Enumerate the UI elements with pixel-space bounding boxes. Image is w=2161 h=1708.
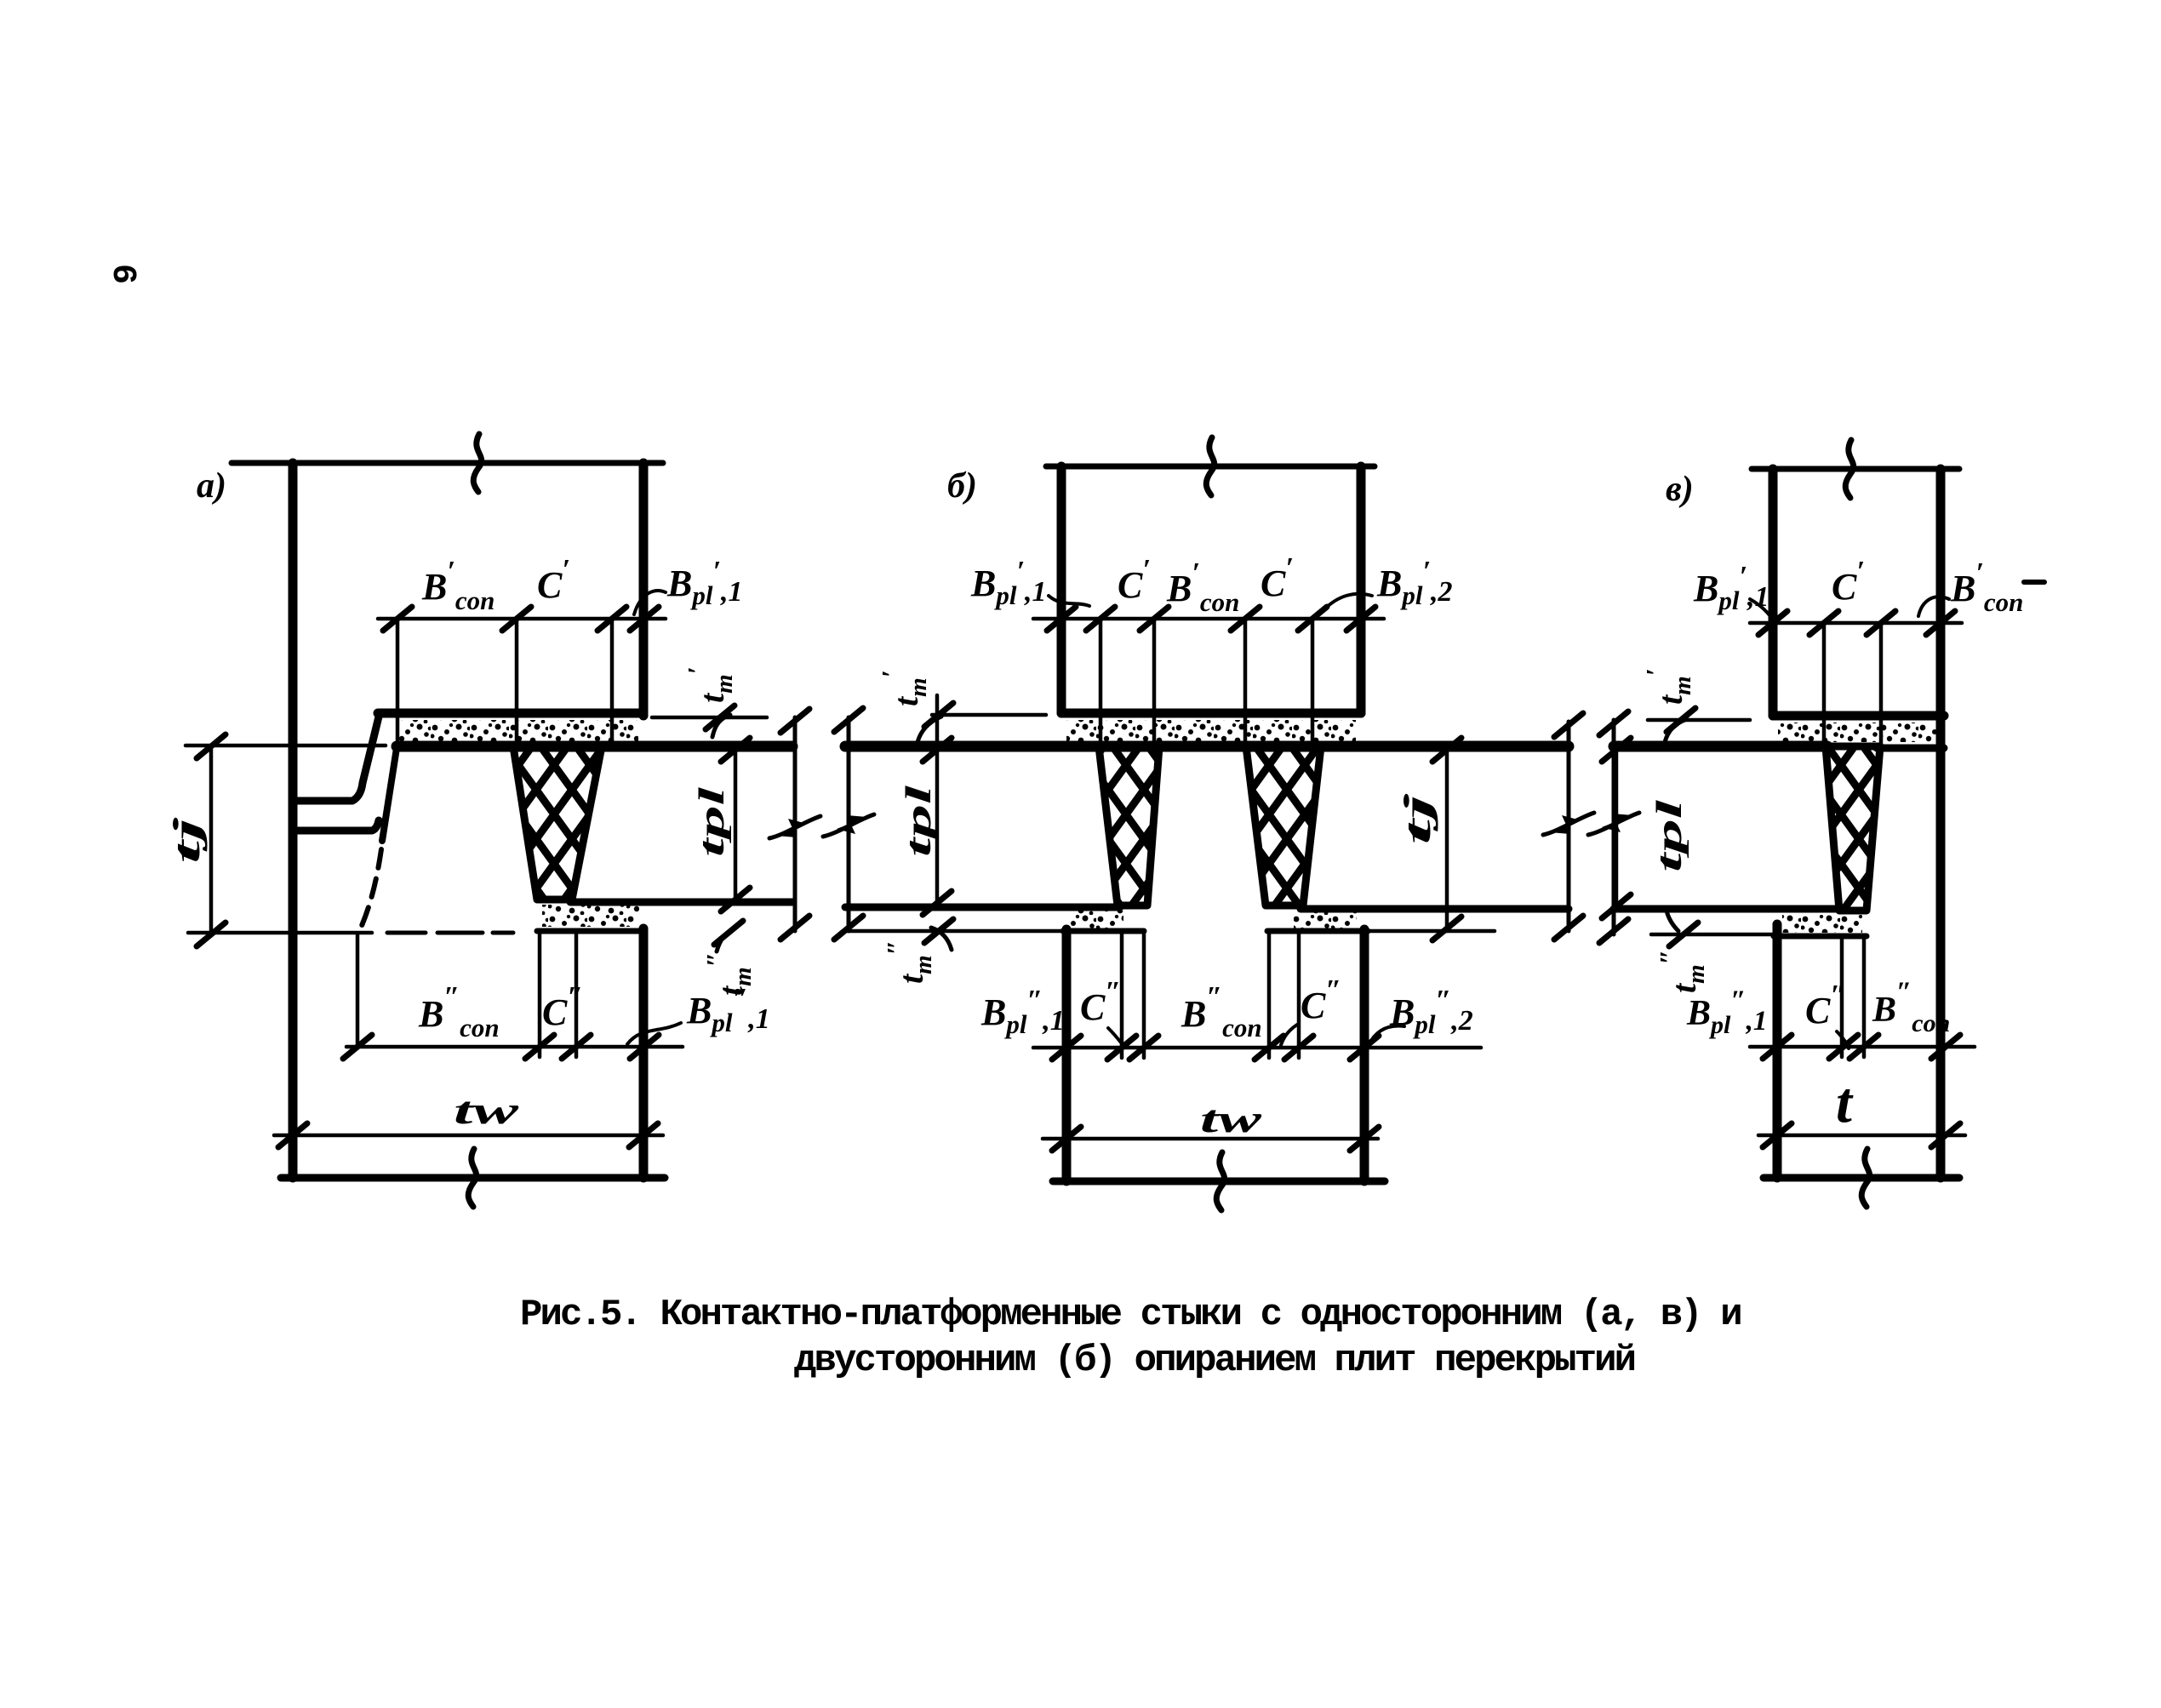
mortar joint M4 left extension [845,929,1063,934]
svg-text:tpl: tpl [900,785,939,857]
slab P1 cut edge [793,717,798,931]
tick [1763,1035,1792,1059]
tick tj bottom [197,923,226,946]
bottom dimension line V [1750,1045,1975,1049]
tick slab P4 edge bottom [1599,919,1628,943]
svg-text:tj: tj [1397,792,1438,845]
grout key K3 (cross-hatched) [1246,746,1321,905]
mortar joint M4 right bottom line [1267,928,1368,934]
wall W5 bottom edge [1773,711,1944,721]
extension line [1243,619,1248,746]
extension line [1297,933,1301,1058]
tm' extension line [652,716,767,720]
svg-text:tj: tj [166,816,208,864]
mortar joint M2 bottom line [537,928,643,934]
slab P2 bottom [845,904,1120,911]
tick [597,607,626,631]
mortar joint M4 right extension [1368,929,1495,934]
break mark bottom wall A [468,1149,476,1207]
mortar joint M2 stipple [542,905,639,927]
mortar joint M3 stipple [1066,720,1356,741]
leader Bpl',1 [634,591,666,614]
tick tm' V [1666,708,1695,732]
tick tpl bottom [721,888,750,911]
break mark top wall V [1845,440,1853,498]
svg-text:В′con: В′con [1950,557,2023,617]
wall W4 right face [1360,929,1369,1181]
grout key K2 (cross-hatched) [1099,746,1159,905]
svg-text:Вpl′,1: Вpl′,1 [666,556,743,610]
tick slab P3 edge bottom [1554,916,1583,940]
mortar joint M5 stipple [1778,723,1936,742]
slab P4 bottom [1614,905,1841,913]
extension line [575,931,579,1057]
tick [1298,607,1327,631]
tick tm'' B [924,919,953,943]
slab P1 bottom [570,899,792,906]
extension line [396,619,400,746]
wall W1 top cut edge [232,460,663,466]
t dimension line V [1758,1134,1965,1138]
wall W2 top ledge [295,820,379,831]
mortar joint M4 stipple right [1294,911,1357,929]
tick slab P4 edge top [1599,711,1628,735]
tick [525,1035,554,1059]
leader hook tm'' [717,928,735,951]
wall W1 upper right face [639,463,649,716]
tick [562,1035,591,1059]
tick [343,1035,372,1059]
wall W6 bottom cut edge [1764,1174,1959,1182]
extension line [1152,619,1157,746]
wall W3 bottom edge [1061,709,1361,718]
tick [1867,611,1895,635]
tick [1107,1036,1136,1060]
joint bottom dashed line [387,931,513,935]
slab P4 cut edge [1612,720,1616,934]
svg-text:tpl: tpl [1650,799,1689,872]
wall W5-W6 right face [1936,469,1946,1178]
leader Bpl'',2 B [1369,1026,1404,1045]
break mark bottom wall V [1861,1149,1869,1207]
svg-text:tm′: tm′ [682,666,738,703]
break mark top wall A [473,434,481,492]
svg-text:С″: С″ [1301,974,1341,1026]
extension line [356,934,360,1047]
extension line [1099,619,1103,746]
tj bottom extension [188,931,372,935]
tick tj top B [1432,738,1461,762]
svg-text:Вpl′,1: Вpl′,1 [1693,561,1769,615]
tick [630,1035,659,1059]
mortar joint M4 stipple left [1070,911,1123,929]
tick [1346,607,1375,631]
tick [1926,611,1955,635]
svg-text:В′con: В′con [1166,557,1239,617]
tick tj top [197,734,226,758]
tick slab P1 edge bottom [780,916,809,940]
svg-text:tm″: tm″ [1654,950,1710,993]
mortar joint M6 stipple [1782,915,1862,933]
grout key K4 (cross-hatched) [1826,746,1880,911]
extension line [610,619,615,746]
tick [502,607,531,631]
tick [1758,611,1787,635]
bottom dimension line B [1033,1046,1481,1050]
tpl dimension line B [935,695,940,905]
wall W3 top cut edge [1046,464,1375,470]
leader Bcon' V [1918,597,1949,616]
svg-text:t: t [1836,1070,1854,1134]
leader hook tm' [712,715,730,737]
leader Bpl',1 left [1049,596,1089,606]
extension line [1822,623,1827,746]
tick [383,607,412,631]
extension line [1120,933,1124,1058]
svg-text:tw: tw [454,1088,519,1132]
mortar joint M1 stipple [398,720,638,741]
wall W1 left face [289,463,298,1178]
tick tm' B [924,703,953,727]
break mark slab P2 [823,814,874,837]
tm' extension line B [932,713,1046,717]
tj top extension [186,744,386,748]
extension line [1142,933,1146,1058]
svg-text:В″con: В″con [1181,981,1262,1043]
tick tpl top B [923,738,952,762]
svg-text:tm′: tm′ [1640,668,1696,705]
mortar joint M4 left bottom line [1063,928,1144,934]
svg-text:С′: С′ [537,554,570,606]
slab P3 bottom [1301,905,1569,913]
tick [1086,607,1115,631]
tick [1047,607,1076,631]
wall W2 shoulder slope [382,748,397,841]
dimension line B'con C' Bpl',1 [378,617,666,621]
svg-text:С′: С′ [1832,556,1865,608]
extension line [1840,936,1844,1057]
svg-text:С″: С″ [1080,976,1121,1028]
break mark bottom wall B [1216,1152,1224,1210]
tw dimension line [274,1134,663,1138]
extension line [1267,933,1272,1058]
tw dimension line B [1043,1137,1378,1141]
tj dimension line B [1445,746,1449,931]
svg-text:а): а) [197,466,226,506]
leader Bpl'',1 [627,1023,681,1044]
svg-text:В′con: В′con [421,556,495,615]
leader Bpl',1 V [1750,599,1773,620]
tick [1231,607,1260,631]
svg-text:Рис.5. Контактно-платформенные: Рис.5. Контактно-платформенные стыки с о… [520,1294,1741,1336]
tick [1849,1035,1878,1059]
stray mark [2024,580,2044,585]
tick [1140,607,1169,631]
tpl dimension line V [1615,746,1619,909]
tm' extension line V [1648,718,1750,723]
tick [1052,1036,1081,1060]
tick tw right B [1350,1127,1379,1151]
break mark slab P1 [769,816,820,838]
svg-text:tm′: tm′ [876,670,932,706]
tj dimension line [209,746,214,934]
svg-text:Вpl″,2: Вpl″,2 [1389,985,1473,1039]
tick slab P3 edge top [1554,713,1583,737]
floor level line / slab P1 top [397,741,792,752]
wall W1 notch profile [295,713,380,801]
svg-text:двусторонним (б) опиранием пли: двусторонним (б) опиранием плит перекрыт… [794,1340,1635,1382]
tick [1931,1035,1960,1059]
tick tw left B [1052,1127,1081,1151]
wall W3 left face [1057,466,1066,713]
leader hook tm'' V [1666,911,1678,931]
wall W5 left face [1769,469,1778,716]
extension line [1311,619,1315,746]
break mark slab P4 [1588,813,1639,835]
tick tpl top [721,738,750,762]
tpl dimension line [734,746,738,902]
tick t left V [1763,1123,1792,1147]
tick slab P1 edge top [780,709,809,733]
extension line [515,619,519,746]
wall W4 left face [1062,929,1072,1181]
tick [1809,611,1838,635]
tick [630,607,659,631]
wall W2 lower right face [639,928,649,1178]
tick tm'' V [1669,923,1698,946]
leader hook tm' B [918,717,941,742]
tick [1284,1036,1313,1060]
extension line [1862,936,1867,1057]
slab P3 cut edge [1567,722,1571,931]
svg-text:9: 9 [109,264,147,284]
svg-text:tm″: tm″ [881,940,937,984]
wall W2 shoulder slope hidden (dashed) [361,849,381,928]
slab P2 cut edge [847,717,851,931]
extension line [1879,623,1884,746]
mortar joint M6 bottom line [1774,934,1867,940]
extension line [538,931,542,1057]
dimension line Bpl',1 C' Bcon' C' Bpl',2 [1033,617,1384,621]
tick tpl bottom B [923,891,952,915]
tick [1829,1035,1858,1059]
svg-text:В″con: В″con [418,981,500,1043]
svg-text:С′: С′ [1118,554,1151,606]
leader hook tm'' B [931,928,952,950]
svg-text:Вpl″,1: Вpl″,1 [980,985,1065,1039]
tick [1255,1036,1283,1060]
tick tj bottom B [1432,917,1461,940]
wall W6 left face [1773,924,1782,1178]
tick tw right [629,1123,658,1147]
grout key K1 (cross-hatched) [513,746,602,900]
mortar joint M6 extension [1651,933,1774,937]
svg-text:С′: С′ [1261,552,1294,604]
bearing surface line V [1877,745,1944,752]
svg-text:в): в) [1666,470,1694,509]
dimension line Bpl',1 C' Bcon' V [1750,621,1962,626]
svg-text:Вpl″,1: Вpl″,1 [1686,985,1767,1039]
svg-text:tpl: tpl [693,786,732,857]
tick tpl top V [1602,738,1631,762]
svg-text:Вpl′,2: Вpl′,2 [1376,556,1453,610]
tick tm'' [714,921,743,945]
tick tw left [278,1123,307,1147]
leader C'' left B [1108,1028,1124,1047]
wall W4 bottom cut edge [1053,1178,1385,1185]
tick tpl bottom V [1602,894,1631,918]
tick tm' [706,705,735,729]
tick slab P2 edge top [834,708,863,732]
break mark slab P3 [1543,813,1594,835]
svg-text:б): б) [947,466,977,506]
wall W5 top cut edge [1752,466,1959,472]
wall W1 bottom edge [378,709,643,718]
leader Bpl',2 [1324,594,1372,609]
svg-text:tw: tw [1200,1097,1262,1140]
floor level line V [1614,741,1827,752]
tick [1350,1036,1379,1060]
break mark top wall B [1206,437,1214,495]
leader C'' V [1837,1031,1849,1048]
leader hook tm' V [1665,719,1687,742]
tick slab P2 edge bottom [834,916,863,940]
tick [1129,1036,1158,1060]
wall W3 right face [1357,466,1366,713]
wall W2 bottom cut edge [281,1174,665,1182]
svg-text:Вpl′,1: Вpl′,1 [970,556,1047,610]
tick t right V [1931,1123,1960,1147]
bottom dimension line Bcon'' C'' Bpl'',1 [346,1045,683,1049]
leader C'' right B [1281,1025,1297,1045]
floor level line B [845,741,1569,752]
